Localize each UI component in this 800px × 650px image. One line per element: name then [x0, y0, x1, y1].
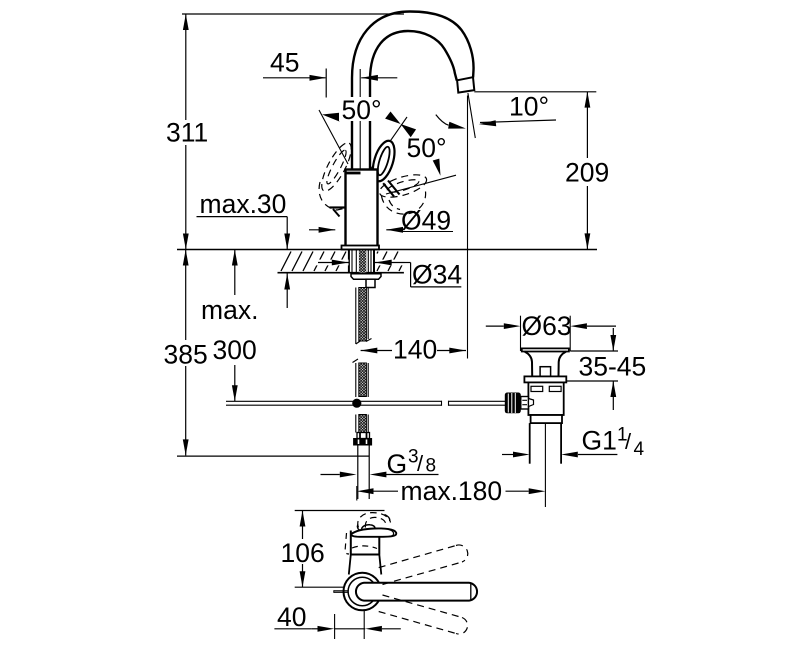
braided hose upper segment — [356, 288, 368, 345]
top view neck — [349, 555, 382, 575]
svg-text:385: 385 — [164, 340, 208, 370]
top view lever solid — [356, 583, 477, 601]
dimension G1 1/4 arrows — [502, 452, 617, 458]
drain plate — [524, 376, 566, 382]
drain knob square — [540, 367, 551, 377]
label 50deg second — [407, 133, 447, 163]
spout tip angled face line — [468, 93, 475, 138]
svg-text:50°: 50° — [407, 133, 447, 163]
top view spout small solid arcs — [357, 515, 389, 531]
top view dashed lever upper — [379, 545, 468, 585]
label 45 — [270, 48, 299, 78]
svg-text:140: 140 — [393, 335, 437, 365]
max.180 left extension line — [356, 486, 358, 501]
label Ø49 — [399, 206, 453, 236]
svg-text:max.180: max.180 — [401, 476, 503, 506]
top view body dashed edges — [345, 533, 377, 554]
dimension max.180 — [357, 488, 546, 494]
dashed lever position left — [316, 139, 356, 210]
label 311 — [166, 118, 208, 148]
svg-text:/: / — [625, 429, 632, 454]
label max. 300 — [201, 295, 258, 365]
top view side rod — [334, 590, 348, 593]
dimension Ø49 arrows — [309, 227, 403, 233]
svg-text:G1: G1 — [582, 426, 617, 456]
spout arc inner — [370, 31, 457, 170]
rod pivot dot — [352, 399, 361, 408]
angle annotation 50deg first: right leader with bowtie arrows — [370, 112, 416, 171]
dimension 35-45 — [566, 328, 618, 410]
svg-text:Ø34: Ø34 — [412, 260, 462, 290]
drain body — [528, 382, 563, 415]
wire top reference line — [182, 13, 404, 15]
spout arc outer — [352, 12, 474, 171]
svg-text:G: G — [387, 449, 408, 479]
106 top extension line — [295, 510, 385, 512]
label Ø63 — [522, 311, 572, 341]
dimension 10 degrees — [479, 120, 556, 126]
label G 3/8 — [387, 447, 437, 480]
label Ø34 — [412, 260, 462, 290]
label 50deg first — [339, 95, 387, 125]
svg-text:10°: 10° — [509, 92, 549, 122]
drain flange top — [522, 348, 569, 376]
label max.180 — [401, 476, 503, 506]
dimension Ø34 arrows — [318, 260, 461, 287]
dimension max.300 vertical — [232, 250, 238, 402]
svg-text:40: 40 — [277, 602, 306, 632]
mounting nut — [366, 279, 375, 287]
svg-text:4: 4 — [634, 439, 645, 460]
white clearance for Ø34 leader through hatch — [313, 260, 405, 266]
svg-text:8: 8 — [426, 456, 437, 477]
spout aerator — [457, 77, 474, 92]
lever loop up position — [369, 138, 400, 196]
drain: Ø63 dimension — [486, 316, 616, 351]
deck bottom line — [278, 272, 404, 274]
lever closed position tab — [330, 208, 346, 217]
svg-text:35-45: 35-45 — [579, 352, 647, 382]
106 bottom extension line — [295, 586, 347, 588]
dimension 45 — [263, 69, 397, 98]
label 140 — [393, 335, 437, 365]
reference line at spout outlet — [474, 91, 596, 93]
supply pipe below connector — [358, 445, 369, 499]
G3/8 connector — [354, 433, 372, 446]
drain center extension line — [544, 423, 546, 507]
label G1 1/4 — [582, 425, 645, 461]
svg-text:209: 209 — [565, 158, 609, 188]
deck hatching — [281, 252, 404, 272]
svg-text:max.30: max.30 — [200, 189, 287, 219]
mounting washer below deck — [351, 274, 381, 279]
svg-text:300: 300 — [213, 335, 257, 365]
faucet center extension line — [359, 69, 361, 170]
svg-text:Ø63: Ø63 — [522, 311, 572, 341]
svg-text:50°: 50° — [342, 95, 382, 125]
shank through deck — [349, 250, 374, 274]
label 385 — [164, 340, 208, 370]
label max.30 — [197, 189, 288, 219]
dimension 385 vertical — [183, 250, 189, 456]
top view spout blade — [351, 525, 396, 537]
top view dashed lever lower — [379, 595, 468, 634]
dimension 140 — [361, 348, 466, 354]
angle annotation 50deg second: arc with arrow near spout tip — [436, 115, 466, 129]
dimension G3/8 arrows — [321, 472, 439, 478]
label 10deg — [509, 92, 549, 122]
dimension 209 vertical — [585, 92, 591, 250]
label 35-45 — [579, 352, 647, 382]
svg-text:45: 45 — [270, 48, 299, 78]
deck top line — [177, 249, 597, 251]
drain tailpiece collar — [531, 415, 562, 423]
dimension 311 vertical line — [183, 14, 189, 250]
label 40 — [274, 602, 312, 632]
pop-up knob — [505, 393, 534, 414]
top view spout dashed swirl — [358, 513, 391, 528]
top view body square — [351, 531, 380, 555]
dimension 40 — [312, 611, 401, 639]
svg-text:max.: max. — [201, 295, 258, 325]
braided hose break marks — [353, 339, 372, 363]
braided hose lower segment — [356, 363, 368, 433]
dashed lever position right — [377, 170, 429, 214]
faucet body — [346, 170, 378, 248]
dimension 106 vertical — [300, 511, 306, 588]
svg-text:/: / — [417, 451, 424, 476]
pop-up rod — [226, 401, 506, 406]
svg-text:311: 311 — [166, 118, 208, 148]
angle annotation 50deg second: lower arrowhead and axis line — [386, 159, 456, 194]
top view base circles — [344, 573, 382, 611]
svg-text:106: 106 — [281, 538, 325, 568]
drain tailpiece pipe — [530, 423, 561, 464]
angle annotation 50deg first: left leader line with arrowhead — [319, 110, 348, 164]
dimension max.30 arrows — [284, 217, 290, 308]
bottom reference line — [177, 455, 369, 457]
spout tip vertical extension line — [467, 96, 469, 359]
label 209 — [565, 158, 609, 188]
label 106 — [281, 538, 325, 568]
base flange — [342, 246, 380, 250]
